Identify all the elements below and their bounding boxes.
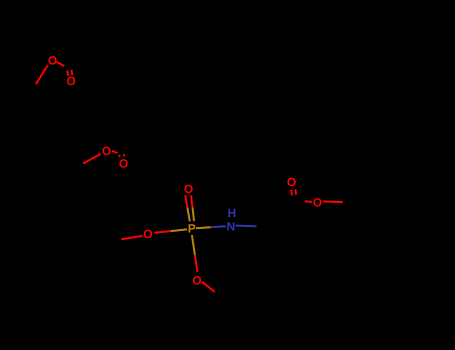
bond O1-C1 (ester O to carbonyl C, red half) — [57, 62, 64, 66]
svg-text:O: O — [313, 196, 322, 210]
svg-text:H: H — [227, 206, 236, 220]
svg-text:O: O — [66, 74, 75, 88]
svg-text:N: N — [226, 219, 235, 233]
svg-text:O: O — [119, 157, 128, 171]
bond O6-CH3 — [121, 236, 143, 240]
bond P-O7 (red half) — [195, 255, 198, 272]
double bond C=O4 (red halves) — [119, 154, 125, 156]
bond P-O6 (red half) — [154, 231, 170, 233]
double bond P=O5 line 2 (red half) — [191, 195, 193, 207]
svg-text:O: O — [184, 182, 193, 196]
double bond P=O5 line 2 (orange half) — [193, 207, 195, 221]
bond N-C (blue half) — [236, 225, 257, 228]
bond P-N (blue half) — [211, 225, 226, 228]
double bond C2=O8 (red halves) — [291, 189, 296, 195]
bond O7-CH3 — [202, 282, 215, 292]
double bond P=O5 line 1 (red half) — [185, 195, 187, 207]
svg-text:O: O — [192, 273, 201, 287]
svg-text:O: O — [287, 175, 296, 189]
bond C2-O9 (red half) — [305, 200, 312, 203]
bond P-O6 (orange half) — [171, 229, 187, 231]
bond P-O7 (orange half) — [192, 235, 195, 255]
bond P-N (orange half) — [196, 227, 211, 228]
bond O3-CH3 (methyl ester 2) — [83, 154, 101, 164]
bond O3-C (red half) — [112, 151, 117, 153]
bond O9-CH2 (benzyl) — [323, 200, 343, 203]
svg-text:O: O — [48, 54, 57, 68]
svg-text:O: O — [143, 227, 152, 241]
bond O1-CH3 (methyl ester, top-left) — [36, 65, 48, 84]
double bond P=O5 line 1 (orange half) — [187, 207, 189, 221]
svg-text:P: P — [188, 222, 196, 236]
double bond C1=O2 (red halves) — [67, 70, 72, 76]
svg-text:O: O — [102, 144, 111, 158]
